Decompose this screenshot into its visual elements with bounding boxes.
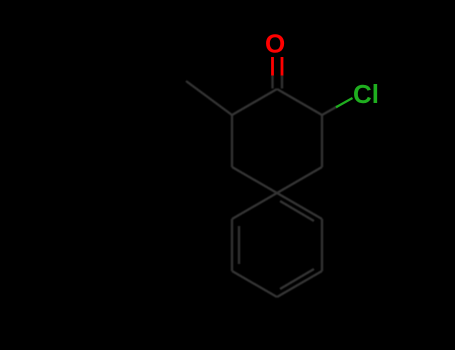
- svg-text:O: O: [265, 28, 285, 58]
- phenyl edge TR: [277, 193, 322, 219]
- methyl stub wire at C6: [186, 81, 232, 115]
- C2-Cl bond carbon-side half: [322, 106, 338, 115]
- aromatic inner line on TR: [280, 201, 314, 221]
- phenyl edge LV: [231, 219, 233, 271]
- svg-text:Cl: Cl: [353, 79, 379, 109]
- C=O double bond oxygen-side halves (red): [273, 57, 283, 76]
- phenyl edge TL: [232, 193, 277, 219]
- C=O double bond carbon-side halves: [271, 75, 273, 89]
- phenyl edge BR: [277, 271, 322, 297]
- ring bond C4-C5: [232, 167, 277, 193]
- ring bond C2-C3: [321, 115, 323, 167]
- ring bond C6-C1: [232, 89, 277, 115]
- phenyl edge BL: [232, 271, 277, 297]
- C2-Cl bond chlorine-side half (green): [336, 98, 353, 107]
- aromatic inner line on LV: [238, 226, 240, 264]
- aromatic inner line on BR: [280, 269, 314, 289]
- phenyl edge RV: [321, 219, 323, 271]
- ring bond C5-C6: [231, 115, 233, 167]
- ring bond C1-C2: [277, 89, 322, 115]
- ring bond C3-C4: [277, 167, 322, 193]
